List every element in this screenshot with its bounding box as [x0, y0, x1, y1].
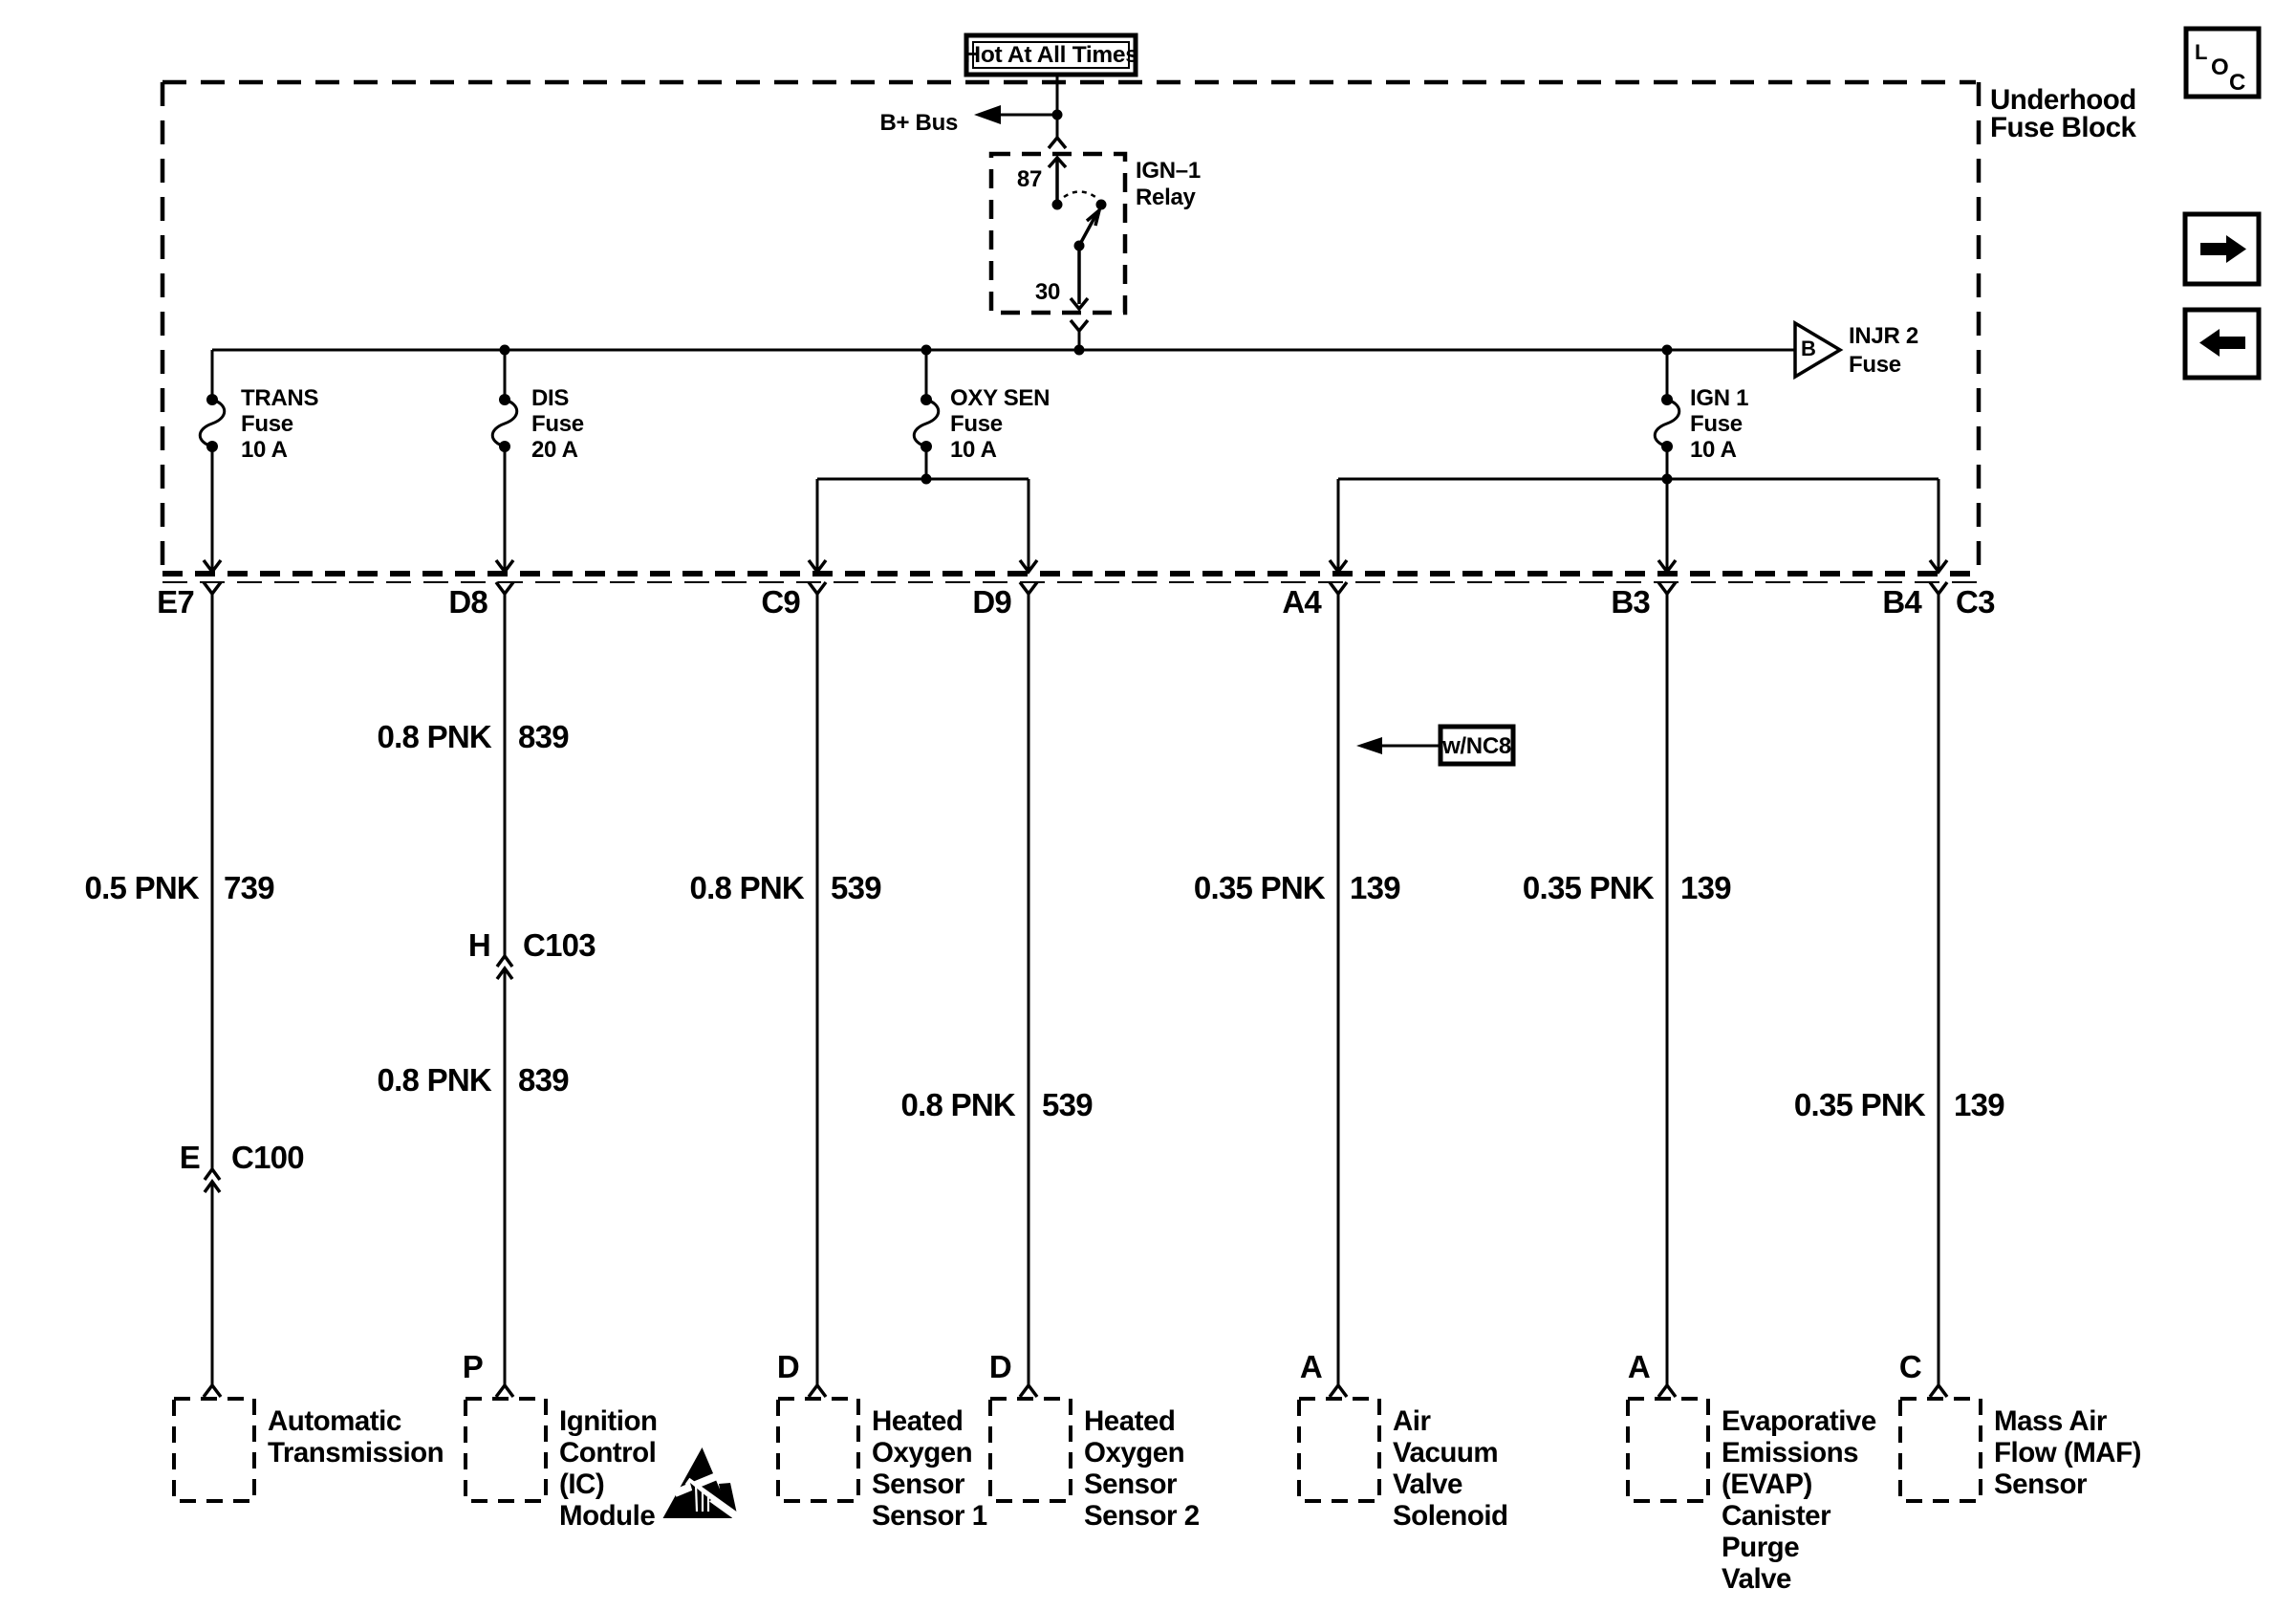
node: relay blade pivot — [1074, 241, 1085, 251]
svg-text:O: O — [2211, 54, 2229, 80]
node: OXY SEN fuse tap — [921, 345, 932, 356]
wire label 0.8 PNK 839 (upper) — [378, 719, 570, 754]
svg-text:Air: Air — [1393, 1405, 1432, 1437]
connector: relay 30 output (female fork) — [1071, 320, 1088, 331]
svg-text:D: D — [989, 1349, 1011, 1384]
svg-text:Relay: Relay — [1136, 185, 1196, 210]
svg-text:0.8 PNK: 0.8 PNK — [901, 1087, 1016, 1122]
wire: B3 to EVAP valve (0.35 PNK 139) — [1666, 594, 1669, 1385]
fuse block connector row (thin dashed line) — [162, 581, 1979, 583]
underhood fuse block dashed enclosure — [162, 82, 1979, 574]
wire: DIS fuse output to pin D8 — [504, 446, 507, 569]
svg-text:139: 139 — [1350, 870, 1400, 905]
svg-text:0.5 PNK: 0.5 PNK — [85, 870, 200, 905]
forward page arrow icon — [2185, 214, 2259, 284]
svg-text:739: 739 — [224, 870, 274, 905]
connector C100 pin E — [180, 1140, 304, 1192]
wire: C9 to HO2S 1 (0.8 PNK 539) — [816, 594, 819, 1385]
fuse DIS 20 A — [492, 350, 584, 463]
svg-text:0.8 PNK: 0.8 PNK — [378, 1062, 492, 1098]
wire: A4 to AIR solenoid (0.35 PNK 139) — [1337, 594, 1340, 1385]
wire: IGN 1 fuse output split to A4, B3, B4 — [1338, 446, 1939, 569]
wire: B4/C3 to MAF sensor (0.35 PNK 139) — [1938, 594, 1940, 1385]
connector: fuse block cavity B4 / C3 — [1882, 582, 1995, 620]
wire: E7 to C100 (0.5 PNK 739) — [211, 594, 214, 1169]
relay IGN-1 — [991, 154, 1201, 313]
connector: fuse block cavity C9 — [761, 582, 826, 620]
svg-text:Fuse: Fuse — [1690, 411, 1743, 437]
svg-text:539: 539 — [1042, 1087, 1093, 1122]
wire: C100 to Automatic Transmission — [211, 1182, 214, 1385]
svg-text:Oxygen: Oxygen — [872, 1437, 972, 1469]
svg-text:B3: B3 — [1611, 584, 1650, 620]
svg-text:Sensor 1: Sensor 1 — [872, 1500, 987, 1532]
wire: B+ Bus feed with arrow — [879, 105, 1057, 136]
component: Heated Oxygen Sensor Sensor 2, pin D — [989, 1349, 1200, 1532]
svg-text:Control: Control — [559, 1437, 656, 1469]
svg-text:B4: B4 — [1882, 584, 1922, 620]
connector C103 pin H — [468, 927, 596, 979]
connector: fuse block cavity E7 — [157, 582, 221, 620]
fuse OXY SEN 10 A — [914, 350, 1050, 463]
svg-text:0.35 PNK: 0.35 PNK — [1794, 1087, 1926, 1122]
component: Heated Oxygen Sensor Sensor 1, pin D — [777, 1349, 987, 1532]
relay 30 terminal arrow (down) — [1071, 246, 1088, 309]
underhood fuse block label — [1990, 84, 2136, 143]
off-page pointer B: INJR 2 Fuse — [1795, 323, 1918, 378]
wire: TRANS fuse output to pin E7 — [211, 446, 214, 569]
svg-text:Fuse: Fuse — [241, 411, 293, 437]
wire label 0.8 PNK 539 — [690, 870, 882, 905]
svg-text:Fuse: Fuse — [950, 411, 1003, 437]
fuse IGN 1 10 A — [1655, 350, 1748, 463]
node: relay 87 contact — [1096, 200, 1107, 210]
svg-text:D: D — [777, 1349, 799, 1384]
svg-text:A: A — [1628, 1349, 1650, 1384]
svg-text:839: 839 — [518, 1062, 569, 1098]
wire: main fused B+ bus — [212, 349, 1795, 352]
harness option flag w/NC8 — [1356, 727, 1513, 764]
svg-text:H: H — [468, 927, 490, 963]
svg-text:539: 539 — [831, 870, 881, 905]
svg-text:139: 139 — [1954, 1087, 2004, 1122]
svg-text:0.35 PNK: 0.35 PNK — [1523, 870, 1655, 905]
wire: D8 to C103 (0.8 PNK 839) — [504, 594, 507, 956]
svg-text:10 A: 10 A — [1690, 437, 1737, 463]
svg-text:Fuse: Fuse — [531, 411, 584, 437]
svg-text:DIS: DIS — [531, 385, 569, 411]
backward page arrow icon — [2185, 310, 2259, 378]
svg-text:0.8 PNK: 0.8 PNK — [690, 870, 805, 905]
connector: fuse block cavity D8 — [448, 582, 513, 620]
node: ign 1 split — [1662, 474, 1673, 485]
svg-text:A4: A4 — [1282, 584, 1322, 620]
component: Automatic Transmission — [174, 1385, 444, 1501]
wire label 0.8 PNK 839 (lower) — [378, 1062, 570, 1098]
svg-text:P: P — [463, 1349, 483, 1384]
relay switch blade arrow — [1079, 210, 1099, 246]
svg-text:10 A: 10 A — [241, 437, 288, 463]
fuse TRANS 10 A — [200, 350, 318, 463]
svg-text:139: 139 — [1680, 870, 1731, 905]
component: Ignition Control (IC) Module, pin P — [463, 1349, 658, 1532]
svg-text:TRANS: TRANS — [241, 385, 318, 411]
wire: D9 to HO2S 2 (0.8 PNK 539) — [1028, 594, 1030, 1385]
svg-text:B: B — [1801, 337, 1816, 360]
wire label 0.35 PNK 139 (B4) — [1794, 1087, 2004, 1122]
svg-text:Canister: Canister — [1722, 1500, 1831, 1532]
svg-text:(IC): (IC) — [559, 1469, 604, 1500]
component: Mass Air Flow (MAF) Sensor, pin C — [1899, 1349, 2141, 1501]
svg-text:Mass Air: Mass Air — [1994, 1405, 2108, 1437]
connector: fuse block cavity B3 — [1611, 582, 1676, 620]
relay switch travel (dashed arc) — [1064, 192, 1095, 198]
svg-text:Valve: Valve — [1722, 1563, 1791, 1595]
svg-text:OXY SEN: OXY SEN — [950, 385, 1050, 411]
svg-text:Transmission: Transmission — [268, 1437, 444, 1469]
wire label 0.35 PNK 139 — [1194, 870, 1400, 905]
node: oxy sen split — [921, 474, 932, 485]
svg-text:10 A: 10 A — [950, 437, 997, 463]
wire: battery feed from Hot At All Times down to relay — [1056, 75, 1059, 138]
svg-text:IGN–1: IGN–1 — [1136, 158, 1201, 184]
node: relay output junction — [1074, 345, 1085, 356]
svg-text:Ignition: Ignition — [559, 1405, 658, 1437]
svg-text:C3: C3 — [1956, 584, 1995, 620]
svg-text:87: 87 — [1017, 166, 1042, 192]
svg-text:L: L — [2195, 40, 2207, 64]
svg-text:Vacuum: Vacuum — [1393, 1437, 1498, 1469]
svg-text:0.8 PNK: 0.8 PNK — [378, 719, 492, 754]
node: DIS fuse tap — [500, 345, 510, 356]
svg-text:Sensor: Sensor — [872, 1469, 965, 1500]
svg-text:B+ Bus: B+ Bus — [879, 110, 958, 136]
svg-text:Emissions: Emissions — [1722, 1437, 1858, 1469]
locator (LOC) page icon — [2186, 29, 2259, 97]
svg-text:D8: D8 — [448, 584, 487, 620]
connector: fuse block cavity A4 — [1282, 582, 1347, 620]
svg-text:Sensor: Sensor — [1084, 1469, 1178, 1500]
wire: OXY SEN fuse output split to C9 and D9 — [817, 446, 1029, 569]
svg-text:C103: C103 — [523, 927, 596, 963]
wire label 0.8 PNK 539 (row 2) — [901, 1087, 1094, 1122]
svg-text:A: A — [1300, 1349, 1322, 1384]
svg-text:IGN 1: IGN 1 — [1690, 385, 1748, 411]
connector: fuse block cavity D9 — [972, 582, 1037, 620]
svg-text:Fuse Block: Fuse Block — [1990, 112, 2136, 143]
svg-text:E: E — [180, 1140, 200, 1175]
svg-text:C9: C9 — [761, 584, 800, 620]
svg-text:INJR 2: INJR 2 — [1849, 323, 1918, 349]
svg-text:0.35 PNK: 0.35 PNK — [1194, 870, 1326, 905]
wire label 0.5 PNK 739 — [85, 870, 275, 905]
node: IGN 1 fuse tap — [1662, 345, 1673, 356]
wire label 0.35 PNK 139 (B3) — [1523, 870, 1731, 905]
Hot At All Times power tag — [964, 35, 1137, 75]
svg-text:(EVAP): (EVAP) — [1722, 1469, 1812, 1500]
svg-text:C: C — [1899, 1349, 1921, 1384]
svg-text:Heated: Heated — [1084, 1405, 1175, 1437]
svg-text:E7: E7 — [157, 584, 194, 620]
svg-text:Automatic: Automatic — [268, 1405, 401, 1437]
node: B+ bus tap — [1052, 110, 1063, 120]
node: relay common pivot — [1052, 200, 1063, 210]
svg-text:839: 839 — [518, 719, 569, 754]
svg-text:Hot At All Times: Hot At All Times — [964, 42, 1137, 68]
svg-text:30: 30 — [1035, 279, 1060, 305]
ESD sensitive device symbol — [663, 1447, 739, 1518]
relay 87 terminal arrow (up) — [1049, 158, 1066, 203]
svg-text:Solenoid: Solenoid — [1393, 1500, 1508, 1532]
svg-text:Purge: Purge — [1722, 1532, 1799, 1563]
connector: relay terminal 87 input (female fork) — [1049, 138, 1066, 148]
svg-text:Flow (MAF): Flow (MAF) — [1994, 1437, 2141, 1469]
svg-text:Valve: Valve — [1393, 1469, 1462, 1500]
svg-text:Heated: Heated — [872, 1405, 963, 1437]
svg-text:D9: D9 — [972, 584, 1011, 620]
wire: C103 to IC module (0.8 PNK 839) — [504, 968, 507, 1385]
svg-text:Oxygen: Oxygen — [1084, 1437, 1184, 1469]
wire: relay output stub to bus — [1078, 331, 1081, 350]
svg-text:w/NC8: w/NC8 — [1441, 733, 1511, 759]
svg-text:Fuse: Fuse — [1849, 352, 1901, 378]
svg-text:Sensor 2: Sensor 2 — [1084, 1500, 1200, 1532]
component: Air Vacuum Valve Solenoid, pin A — [1299, 1349, 1508, 1532]
svg-text:C: C — [2229, 70, 2245, 96]
svg-text:Module: Module — [559, 1500, 655, 1532]
svg-text:Evaporative: Evaporative — [1722, 1405, 1876, 1437]
svg-text:20 A: 20 A — [531, 437, 578, 463]
svg-text:Sensor: Sensor — [1994, 1469, 2088, 1500]
component: EVAP Canister Purge Valve, pin A — [1628, 1349, 1876, 1595]
svg-text:C100: C100 — [231, 1140, 304, 1175]
